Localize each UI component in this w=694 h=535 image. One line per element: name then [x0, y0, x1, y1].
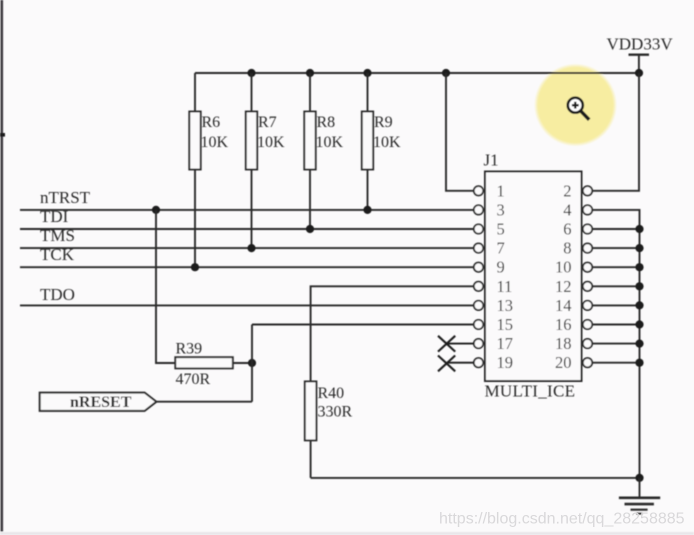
- svg-text:7: 7: [497, 239, 505, 258]
- wire pin14 stub: [592, 304, 639, 306]
- wire pin18 stub: [592, 343, 639, 345]
- svg-text:TMS: TMS: [40, 226, 75, 245]
- svg-text:13: 13: [497, 296, 514, 315]
- svg-text:17: 17: [497, 334, 514, 353]
- node top-rail junction R9: [363, 69, 371, 77]
- resistor R9: [362, 73, 401, 210]
- svg-text:R6: R6: [202, 114, 221, 131]
- ground: [619, 498, 660, 514]
- node right bus pin16: [635, 320, 643, 328]
- wire nTRST branch down to R39: [156, 210, 175, 363]
- svg-text:nTRST: nTRST: [40, 188, 91, 207]
- node top-rail junction R7: [247, 69, 255, 77]
- svg-text:10: 10: [555, 258, 572, 277]
- svg-text:20: 20: [555, 353, 572, 372]
- svg-text:J1: J1: [484, 151, 499, 170]
- wire pin16 stub: [592, 324, 639, 326]
- svg-text:19: 19: [497, 353, 514, 372]
- node right bus pin14: [635, 301, 643, 309]
- wire nTRST: [20, 209, 474, 211]
- bottom gray band: [0, 532, 694, 535]
- svg-text:VDD33V: VDD33V: [607, 35, 674, 54]
- wire pin4 down right bus: [592, 210, 639, 478]
- node right bus pin18: [635, 340, 643, 348]
- svg-text:14: 14: [555, 296, 572, 315]
- resistor R6: [189, 73, 228, 267]
- node nTRST/R39 junction: [152, 206, 160, 214]
- wire pin20 stub: [592, 362, 639, 364]
- node right bus pin20: [635, 359, 643, 367]
- node right bus pin8: [635, 244, 643, 252]
- magnifier highlight circle: [534, 64, 617, 147]
- pin circles right (2..20): [583, 186, 592, 367]
- wire pin2 to VDD rail: [592, 73, 639, 191]
- wire pin11 to R40: [311, 286, 474, 381]
- svg-text:MULTI_ICE: MULTI_ICE: [485, 382, 576, 401]
- svg-text:11: 11: [497, 277, 513, 296]
- node R39/nRESET/pin15 junction: [248, 359, 256, 367]
- pin numbers odd: [497, 181, 514, 372]
- svg-text:12: 12: [555, 277, 572, 296]
- connector J1: [484, 151, 582, 401]
- svg-text:R8: R8: [317, 114, 336, 131]
- svg-text:TDO: TDO: [40, 285, 75, 304]
- no-connect X pin19: [438, 356, 474, 372]
- pin numbers even: [555, 181, 572, 372]
- svg-text:R9: R9: [374, 114, 393, 131]
- wire down to ground: [639, 478, 641, 498]
- wire R40 bottom to ground rail: [311, 477, 640, 479]
- svg-text:5: 5: [497, 220, 505, 239]
- node TCK/R6 junction: [191, 263, 199, 271]
- svg-text:8: 8: [563, 239, 571, 258]
- svg-text:10K: 10K: [257, 134, 285, 151]
- node right bus / ground rail: [635, 474, 643, 482]
- svg-text:nRESET: nRESET: [70, 394, 132, 411]
- svg-text:6: 6: [563, 220, 571, 239]
- wire top rail: [195, 72, 640, 74]
- wire pin12 stub: [592, 285, 639, 287]
- svg-text:3: 3: [497, 200, 505, 219]
- pin circles left (1..19): [474, 186, 483, 367]
- no-connect X pin17: [438, 336, 474, 352]
- svg-text:470R: 470R: [176, 371, 211, 388]
- resistor R40: [305, 381, 353, 478]
- node top-rail junction right: [635, 69, 643, 77]
- node TDI/R8 junction: [306, 225, 314, 233]
- port nRESET: [40, 393, 157, 411]
- svg-text:R39: R39: [176, 341, 203, 358]
- power VDD33V: [607, 35, 674, 74]
- node right bus pin12: [635, 282, 643, 290]
- node right bus pin10: [635, 263, 643, 271]
- svg-text:4: 4: [563, 200, 571, 219]
- svg-text:TDI: TDI: [40, 207, 69, 226]
- svg-text:10K: 10K: [373, 134, 401, 151]
- svg-text:10K: 10K: [316, 134, 344, 151]
- svg-text:R40: R40: [318, 385, 345, 402]
- node TMS/R7 junction: [247, 244, 255, 252]
- resistor R7: [246, 73, 285, 248]
- svg-text:15: 15: [497, 315, 514, 334]
- node nTRST/R9 junction: [363, 206, 371, 214]
- svg-text:R7: R7: [258, 114, 277, 131]
- wire junction up to pin15 line and down to nRESET: [251, 325, 253, 402]
- node top-rail junction pin1 branch: [442, 69, 450, 77]
- wire pin1 branch: [446, 73, 474, 191]
- wire pin15 stub: [252, 324, 474, 326]
- svg-text:https://blog.csdn.net/qq_28258: https://blog.csdn.net/qq_28258885: [439, 511, 685, 528]
- node top-rail junction R8: [306, 69, 314, 77]
- wire TCK: [20, 266, 474, 268]
- wire nRESET horizontal: [156, 401, 252, 403]
- sheet left border: [0, 0, 5, 532]
- wire TMS: [20, 247, 474, 249]
- node right bus pin6: [635, 225, 643, 233]
- svg-text:TCK: TCK: [40, 245, 75, 264]
- wire pin6 stub: [592, 228, 639, 230]
- svg-text:9: 9: [497, 258, 505, 277]
- resistor R8: [304, 73, 343, 229]
- wire TDO: [20, 304, 474, 306]
- svg-text:1: 1: [497, 181, 505, 200]
- wire TDI: [20, 228, 474, 230]
- wire pin8 stub: [592, 247, 639, 249]
- wire pin10 stub: [592, 266, 639, 268]
- svg-text:10K: 10K: [201, 134, 229, 151]
- svg-text:2: 2: [563, 181, 571, 200]
- magnifier icon: [568, 98, 589, 120]
- svg-text:330R: 330R: [318, 404, 353, 421]
- resistor R39: [175, 341, 252, 389]
- svg-text:18: 18: [555, 334, 572, 353]
- svg-text:16: 16: [555, 315, 572, 334]
